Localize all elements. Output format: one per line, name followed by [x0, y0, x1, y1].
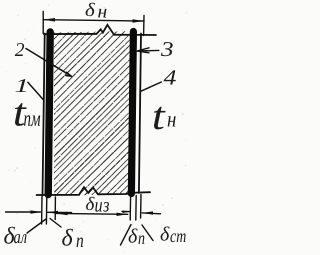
callout digit 2: [15, 43, 24, 56]
dimension arrows δал δп left: [6, 211, 72, 214]
label tн: [154, 107, 166, 130]
label δн: [86, 3, 95, 16]
callout leader 3 open arrow: [137, 48, 159, 53]
callout leader 1: [28, 82, 44, 100]
label δп right: [129, 229, 138, 243]
label tпм: [15, 103, 27, 126]
dimension line δиз: [56, 212, 128, 215]
leader δст: [142, 225, 153, 241]
insulation hatch (layer δиз): [0, 26, 300, 200]
extension line top right: [143, 16, 145, 36]
callout leader 4: [141, 82, 162, 91]
top edge with break symbol: [44, 25, 156, 35]
label δиз: [86, 197, 95, 210]
extension line top left: [42, 12, 44, 34]
callout digit 1: [16, 79, 26, 92]
layer 4 steel sheet thin line right: [139, 34, 141, 194]
leader δп left: [50, 219, 61, 228]
label δал: [4, 227, 15, 244]
leader δп right: [121, 225, 132, 246]
bottom edge with break symbol: [37, 187, 151, 195]
facing layer bar right δп: [131, 32, 133, 194]
bottom-left extension lines: [42, 197, 47, 225]
dimension arrows δп δст right: [122, 211, 161, 213]
callout leader 2: [26, 49, 72, 77]
leader δал: [27, 219, 46, 233]
label δп left: [62, 229, 73, 246]
callout digit 4: [164, 70, 176, 84]
extension line insulation left: [54, 197, 56, 220]
label δст: [161, 227, 170, 241]
callout digit 3: [161, 42, 173, 56]
facing layer bar left δп: [48, 32, 50, 195]
layer 1 aluminum sheet thin line left: [43, 34, 45, 196]
dimension line δн: [44, 20, 145, 21]
bottom-right extension lines: [130, 195, 141, 221]
